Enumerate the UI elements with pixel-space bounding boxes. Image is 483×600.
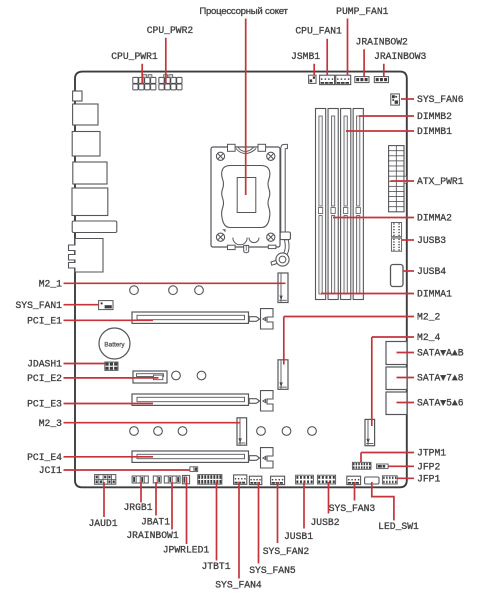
svg-text:SATA▼A▲B: SATA▼A▲B [417, 348, 464, 359]
leader line JDASH1 [64, 363, 105, 365]
board outline [75, 72, 407, 488]
svg-text:JSMB1: JSMB1 [291, 51, 320, 62]
svg-text:JDASH1: JDASH1 [27, 359, 62, 370]
DIMM slot DIMMB1 [341, 109, 351, 300]
leader line JTPM1 drop [360, 453, 362, 463]
connector JRAINBOW3 [374, 77, 388, 83]
DIMM slot DIMMB2 [353, 109, 363, 300]
svg-text:SATA▼5▲6: SATA▼5▲6 [417, 398, 464, 409]
svg-text:JAUD1: JAUD1 [88, 518, 117, 529]
svg-text:SYS_FAN5: SYS_FAN5 [249, 565, 296, 576]
CPU socket retention rail [280, 149, 282, 232]
leader line SYS_FAN5 [258, 482, 260, 564]
svg-text:SYS_FAN6: SYS_FAN6 [417, 94, 464, 105]
leader line JBAT1 [155, 482, 157, 516]
CPU socket pin1 mark [222, 229, 225, 232]
leader line JUSB3 [402, 239, 414, 241]
PCIe slot PCI_E2 [133, 371, 167, 383]
connector SYS_FAN2 [271, 476, 285, 484]
leader line JTPM1 [361, 452, 414, 454]
leader line JTBT1 [216, 482, 218, 561]
M.2 slot M2_1 [278, 273, 288, 303]
M.2 slot M2_2 [278, 360, 288, 390]
svg-text:SYS_FAN1: SYS_FAN1 [15, 300, 62, 311]
leader line processor socket [245, 19, 247, 196]
svg-text:JFP1: JFP1 [417, 473, 440, 484]
mounting holes row 1 [130, 286, 139, 295]
leader line M2_2 [284, 316, 414, 318]
svg-text:JBAT1: JBAT1 [141, 517, 170, 528]
leader line SATAv5^6 [397, 402, 415, 404]
connector JCI1 [190, 467, 198, 472]
svg-text:DIMMA1: DIMMA1 [417, 289, 452, 300]
connector JDASH1 [105, 362, 118, 370]
svg-text:PCI_E2: PCI_E2 [27, 373, 62, 384]
leader line ATX_PWR1 [391, 180, 415, 182]
CPU socket bracket [211, 147, 280, 247]
CPU socket top tabs [228, 144, 236, 151]
leader line JFP1 [398, 477, 415, 479]
svg-text:PCI_E4: PCI_E4 [27, 452, 62, 463]
svg-text:M2_4: M2_4 [417, 332, 440, 343]
connector CPU_PWR2 [159, 77, 164, 83]
leader line LED_SW1 [372, 482, 394, 520]
svg-text:LED_SW1: LED_SW1 [378, 521, 419, 532]
leader line M2_3 [64, 422, 241, 424]
svg-text:CPU_PWR1: CPU_PWR1 [111, 51, 158, 62]
leader line M2_1 [64, 282, 286, 284]
connector SYS_FAN6 [391, 94, 400, 105]
rear I/O port block 4 [72, 188, 108, 216]
svg-text:JTPM1: JTPM1 [417, 448, 446, 459]
connector JFP2 [377, 464, 389, 469]
svg-text:JUSB3: JUSB3 [417, 235, 446, 246]
leader line JFP2 [389, 465, 415, 467]
connector JFP1 [382, 476, 397, 484]
svg-text:M2_3: M2_3 [39, 418, 62, 429]
leader line DIMMA1 [321, 293, 414, 295]
CPU socket inner body [222, 166, 270, 228]
svg-text:CPU_PWR2: CPU_PWR2 [147, 25, 194, 36]
connector JBAT1 [153, 476, 161, 483]
connector SYS_FAN3 [347, 476, 361, 484]
svg-text:JRAINBOW3: JRAINBOW3 [374, 51, 427, 62]
rear I/O strip [72, 221, 117, 233]
leader line JPWRLED1 [186, 477, 188, 544]
leader line DIMMB2 [359, 115, 414, 117]
CPU socket lever [271, 240, 289, 265]
svg-text:JUSB1: JUSB1 [284, 531, 313, 542]
CPU socket bottom cutouts [233, 238, 247, 245]
svg-text:SYS_FAN2: SYS_FAN2 [263, 546, 310, 557]
svg-text:Процессорный сокет: Процессорный сокет [199, 6, 288, 17]
svg-text:DIMMA2: DIMMA2 [417, 213, 452, 224]
PCIe slot PCI_E1 [132, 312, 249, 323]
leader line JRAINBOW2 [363, 49, 365, 76]
connector CPU_PWR1 [133, 77, 138, 83]
switch LED_SW1 [365, 477, 379, 484]
connector JUSB3 (upper) [391, 223, 401, 237]
leader line JUSB1 [303, 482, 305, 529]
M.2 slot M2_4 [365, 419, 375, 445]
connector CPU_FAN1 [320, 75, 335, 84]
connector JPWRLED1 [182, 475, 189, 483]
svg-text:JFP2: JFP2 [417, 461, 440, 472]
leader line PCI_E2 [64, 377, 159, 379]
SATA ports 5,6 [386, 392, 407, 415]
leader line PCI_E3 [64, 403, 154, 405]
leader line M2_2 drop [283, 317, 285, 365]
mounting holes row 2 [130, 427, 139, 436]
leader line SYS_FAN2 [277, 482, 279, 543]
rear I/O port block 1 [73, 104, 98, 125]
connector JRGB1 [132, 476, 148, 483]
connector JRAINBOW1 [164, 476, 180, 483]
leader line JRGB1 [140, 482, 142, 503]
svg-text:JRGB1: JRGB1 [123, 502, 152, 513]
leader line DIMMB1 [346, 130, 414, 132]
svg-text:JRAINBOW2: JRAINBOW2 [356, 36, 409, 47]
svg-text:JUSB4: JUSB4 [417, 266, 446, 277]
connector JTPM1 [352, 462, 371, 469]
connector PUMP_FAN1 [336, 75, 351, 84]
svg-text:JRAINBOW1: JRAINBOW1 [126, 530, 179, 541]
leader line PCI_E1 [64, 319, 154, 321]
audio jack block [69, 239, 104, 273]
svg-text:DIMMB1: DIMMB1 [417, 126, 452, 137]
connector SYS_FAN1 [99, 301, 113, 310]
leader line SYS_FAN6 [401, 98, 414, 100]
connector SYS_FAN5 [249, 476, 261, 484]
CPU socket lever latch [280, 232, 290, 240]
leader line JAUD1 [103, 482, 105, 517]
leader line CPU_PWR2 [165, 38, 167, 84]
connector JAUD1 [95, 475, 116, 485]
leader line SATAvA^B [397, 352, 415, 354]
leader line SYS_FAN4 [238, 482, 240, 579]
rear I/O port block 2 [72, 132, 100, 157]
svg-text:SYS_FAN3: SYS_FAN3 [329, 503, 376, 514]
svg-text:SATA▼7▲8: SATA▼7▲8 [417, 373, 464, 384]
svg-text:PCI_E1: PCI_E1 [27, 315, 62, 326]
leader line JSMB1 [313, 64, 315, 75]
connector SYS_FAN4 [234, 475, 247, 484]
svg-text:ATX_PWR1: ATX_PWR1 [417, 176, 464, 187]
connector ATX_PWR1 [389, 146, 404, 212]
svg-text:JUSB2: JUSB2 [310, 517, 339, 528]
DIMM slot DIMMA2 [328, 109, 338, 300]
leader line PCI_E4 [64, 456, 154, 458]
connector JUSB1 [296, 475, 314, 484]
PCIe slot PCI_E3 [132, 394, 249, 405]
connector JUSB4 [391, 265, 404, 287]
leader line JRAINBOW3 [383, 64, 385, 77]
svg-text:JPWRLED1: JPWRLED1 [163, 545, 210, 556]
svg-text:PCI_E3: PCI_E3 [27, 399, 62, 410]
svg-text:M2_2: M2_2 [417, 312, 440, 323]
leader line CPU_FAN1 [326, 39, 328, 75]
DIMM slot DIMMA1 [316, 109, 326, 300]
connector JRAINBOW2 [355, 77, 369, 83]
leader line SYS_FAN3 [354, 482, 356, 501]
leader line M2_4 [372, 336, 414, 338]
PCIe slot PCI_E4 [132, 451, 249, 462]
leader line DIMMA2 [333, 217, 414, 219]
SATA ports A,B [386, 342, 407, 365]
svg-text:JTBT1: JTBT1 [201, 561, 230, 572]
rear I/O small tab [73, 91, 82, 101]
connector JUSB2 [317, 475, 335, 484]
leader line M2_4 drop [371, 337, 373, 426]
rear I/O port block 3 [73, 162, 107, 184]
M.2 standoff hole [276, 253, 289, 266]
svg-text:JCI1: JCI1 [39, 465, 62, 476]
svg-text:M2_1: M2_1 [39, 278, 62, 289]
leader line JRAINBOW1 [171, 482, 173, 530]
connector JSMB1 [309, 75, 316, 83]
connector JUSB3 (lower) [391, 238, 401, 251]
svg-text:CPU_FAN1: CPU_FAN1 [295, 25, 342, 36]
CPU socket die area [237, 178, 256, 213]
svg-text:DIMMB2: DIMMB2 [417, 111, 452, 122]
leader line PUMP_FAN1 [347, 19, 349, 76]
SATA ports 7,8 [386, 367, 407, 390]
leader line JUSB2 [328, 482, 330, 514]
svg-text:SYS_FAN4: SYS_FAN4 [215, 580, 262, 591]
M.2 slot M2_3 [237, 418, 247, 445]
svg-text:Battery: Battery [104, 342, 125, 349]
leader line SATAv7^8 [397, 377, 415, 379]
svg-text:PUMP_FAN1: PUMP_FAN1 [336, 6, 389, 17]
leader line JCI1 [64, 469, 190, 471]
leader line SYS_FAN1 [64, 304, 99, 306]
CPU socket corner screws [216, 152, 224, 160]
mounting holes near PCI_E2 [172, 371, 181, 380]
battery [99, 328, 130, 359]
connector JTBT1 [198, 475, 222, 485]
leader line CPU_PWR1 [141, 64, 143, 84]
leader line JUSB4 [403, 270, 414, 272]
